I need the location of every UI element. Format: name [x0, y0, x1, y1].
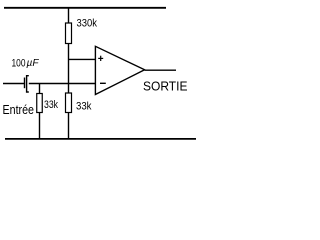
wire: drop from input wire to resistor R2 — [39, 84, 41, 95]
wire: from capacitor to op-amp inverting input — [29, 83, 96, 85]
wire: from top rail down to resistor R1 (330k) — [68, 8, 70, 24]
resistor R2 33k body — [37, 94, 43, 113]
svg-text:SORTIE: SORTIE — [143, 79, 188, 94]
resistor R3 33k body — [66, 93, 72, 113]
capacitor C1 right plate (polarized bracket) — [27, 76, 29, 92]
wire: op-amp output — [145, 69, 176, 71]
wire: R2 bottom to ground rail — [39, 113, 41, 139]
capacitor C1 left plate — [24, 78, 26, 89]
wire: vertical bias node from R1 bottom to R3 top — [68, 44, 70, 94]
op-amp U1 minus input marker — [100, 82, 106, 84]
wire: top supply rail — [4, 7, 166, 9]
op-amp U1 plus input marker — [98, 56, 103, 61]
svg-text:µF: µF — [27, 57, 40, 69]
svg-text:33k: 33k — [44, 99, 58, 111]
wire: node to op-amp non-inverting input — [69, 58, 96, 60]
svg-text:330k: 330k — [77, 18, 98, 30]
svg-text:Entrée: Entrée — [3, 102, 35, 117]
resistor R1 330k body — [66, 23, 72, 44]
svg-text:100: 100 — [12, 58, 26, 70]
svg-text:33k: 33k — [76, 101, 92, 113]
wire: input wire left of capacitor C1 — [3, 83, 24, 85]
op-amp U1 triangle — [95, 46, 144, 94]
wire: R3 bottom to ground rail — [68, 113, 70, 139]
wire: bottom ground rail — [5, 138, 196, 140]
